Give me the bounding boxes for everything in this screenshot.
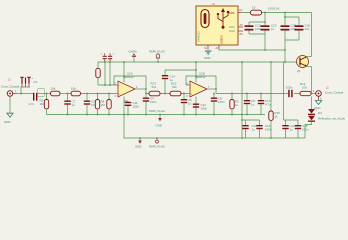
svg-text:1n: 1n xyxy=(72,103,76,107)
junction C8 xyxy=(213,93,215,95)
svg-text:100n: 100n xyxy=(265,128,272,132)
capacitor C8 xyxy=(211,94,225,115)
label +5V usb xyxy=(268,7,279,11)
svg-text:100n: 100n xyxy=(150,100,157,104)
capacitor C2 xyxy=(84,94,96,115)
svg-text:L5: L5 xyxy=(252,6,256,10)
wire vertical x271 xyxy=(270,62,272,111)
svg-text:-: - xyxy=(119,83,120,87)
junction x242 y120 xyxy=(241,119,243,121)
wire R6 to R7 xyxy=(60,93,71,95)
svg-text:VBUS: VBUS xyxy=(228,12,235,15)
capacitor C9 xyxy=(244,94,255,115)
connector J2 output coaxial xyxy=(313,86,344,97)
svg-text:4.7u: 4.7u xyxy=(29,102,35,106)
wire op1 out row xyxy=(146,93,190,95)
wire cap pair2 tops xyxy=(285,13,299,26)
capacitor C15 xyxy=(245,24,262,32)
svg-text:CC2: CC2 xyxy=(229,29,235,33)
junction vbus b xyxy=(284,12,286,14)
capacitor C18 xyxy=(295,24,311,32)
svg-text:USB2.0: USB2.0 xyxy=(220,35,224,44)
wire op1 vcc pin xyxy=(123,62,125,82)
wire bottom cap tops left pair xyxy=(242,120,260,125)
wire op1 output xyxy=(135,88,146,90)
junction C5b xyxy=(183,93,185,95)
ground J1 xyxy=(4,113,13,124)
junction C17 xyxy=(260,93,262,95)
capacitor C5 bypass xyxy=(101,53,107,63)
input filter caps C1 C2 xyxy=(20,77,37,94)
gnd bus usb row xyxy=(219,48,285,62)
junction rail x196 xyxy=(195,61,197,63)
connector J4 USB-C receptacle xyxy=(196,6,238,45)
svg-text:1u: 1u xyxy=(188,102,192,106)
pin S1 shield stub xyxy=(204,45,208,50)
wire vertical x283.5 xyxy=(283,62,285,120)
svg-text:1u: 1u xyxy=(251,103,255,107)
wire R11 to J2 xyxy=(311,93,316,95)
junction op1 out xyxy=(145,88,147,90)
svg-text:A5: A5 xyxy=(240,23,244,27)
wire cap pair2 bottoms xyxy=(285,31,299,51)
wire transistor emitter stub xyxy=(307,66,312,68)
diode D1 protection xyxy=(308,97,318,116)
junction y85 a xyxy=(104,84,106,86)
capacitor C14 xyxy=(162,75,175,94)
wire op2 output xyxy=(207,88,216,90)
svg-text:SHIELD: SHIELD xyxy=(197,32,201,42)
J2 ground pin xyxy=(314,96,322,110)
wire op2 vee pin xyxy=(195,97,197,115)
resistor R7 xyxy=(71,87,81,96)
junction pair1 xyxy=(264,21,266,23)
wire op2 feedback loop xyxy=(186,76,216,94)
svg-text:100n: 100n xyxy=(133,105,140,109)
junction R8 xyxy=(97,93,99,95)
wire op1 feedback loop xyxy=(114,76,146,94)
pin A5 CC1 stub xyxy=(238,23,243,27)
svg-text:1u: 1u xyxy=(252,128,256,132)
svg-text:1u: 1u xyxy=(290,128,294,132)
junction bus50 a xyxy=(264,49,266,51)
capacitor C4 xyxy=(143,94,157,115)
junction y85 b xyxy=(109,84,111,86)
junction output node xyxy=(311,93,313,95)
USB GND vertical text xyxy=(220,35,224,44)
svg-text:51k: 51k xyxy=(152,85,157,89)
resistor R15 xyxy=(269,111,280,138)
capacitor C7 xyxy=(64,94,75,115)
svg-text:C3: C3 xyxy=(34,80,38,84)
ground symbol mid xyxy=(156,115,162,128)
resistor R10 xyxy=(230,94,239,115)
wire VBUS main xyxy=(241,12,312,14)
svg-text:100n: 100n xyxy=(201,107,208,111)
resistor R8 xyxy=(95,94,99,115)
svg-text:GND: GND xyxy=(4,120,10,124)
power flag bottom xyxy=(149,138,166,149)
svg-text:Conn_Coaxial: Conn_Coaxial xyxy=(1,85,20,89)
wire after series cap xyxy=(38,93,51,95)
junction R10 xyxy=(231,93,233,95)
capacitor C6 bypass xyxy=(108,53,115,63)
svg-text:Q1: Q1 xyxy=(297,69,301,73)
svg-text:1u: 1u xyxy=(271,27,275,31)
wire transistor collector stub xyxy=(307,56,312,58)
capacitor C1 series xyxy=(29,89,45,106)
svg-text:1M: 1M xyxy=(101,103,106,107)
USB trident symbol xyxy=(217,8,229,29)
svg-text:S1: S1 xyxy=(204,46,208,50)
junction x196 y70 xyxy=(195,69,197,71)
capacitor C5b bias xyxy=(181,94,192,115)
wire bus low xyxy=(124,115,305,139)
wire vbus to right edge down xyxy=(311,13,313,57)
svg-text:PWR_FLAG: PWR_FLAG xyxy=(149,145,166,149)
svg-text:-: - xyxy=(191,83,192,87)
wire R7 to opamp xyxy=(81,93,119,95)
svg-text:100n: 100n xyxy=(286,86,293,90)
wire cap pair1 tops xyxy=(249,13,265,26)
junction rail x158 xyxy=(157,61,159,63)
svg-text:GND: GND xyxy=(204,56,210,60)
USB-C plug glyph xyxy=(201,10,209,28)
ground symbol bottom xyxy=(135,138,142,149)
resistor R4 feedback xyxy=(96,62,100,85)
capacitor C12 xyxy=(193,103,208,111)
J4 reference label xyxy=(212,2,215,6)
ferrite bead L5 xyxy=(251,6,262,16)
capacitor C17 xyxy=(258,94,271,115)
capacitor C19 xyxy=(281,24,298,32)
svg-text:A4: A4 xyxy=(239,8,243,12)
svg-text:Reflection_sw_Audio: Reflection_sw_Audio xyxy=(318,117,345,121)
wire bottom cap tops right pair xyxy=(284,120,299,125)
svg-text:100Ω 2A: 100Ω 2A xyxy=(268,7,279,11)
junction C11 xyxy=(127,114,129,116)
svg-text:B5: B5 xyxy=(240,32,244,36)
ground for USB shield xyxy=(204,51,211,61)
svg-text:10k: 10k xyxy=(51,87,56,91)
junction C2 xyxy=(86,93,88,95)
junction op2 out xyxy=(215,88,217,90)
junction C14 node xyxy=(164,93,166,95)
junction rail x110 xyxy=(109,61,111,63)
pin A1 gnd stub xyxy=(216,45,220,50)
USB pin names CC1 CC2 xyxy=(229,25,235,33)
junction rail right verticals xyxy=(241,61,286,63)
svg-text:Conn_Coaxial: Conn_Coaxial xyxy=(325,91,344,95)
gnd bus mid xyxy=(47,114,266,116)
resistor R9 xyxy=(101,94,112,115)
capacitor C16 xyxy=(256,124,272,138)
resistor R5 xyxy=(40,94,49,115)
junction pair2 xyxy=(284,16,286,18)
resistor R12 xyxy=(170,82,181,96)
resistor R11 output xyxy=(300,82,311,96)
capacitor C18b xyxy=(295,124,309,138)
junction rail x105 xyxy=(104,61,106,63)
capacitor C11 xyxy=(125,101,140,115)
wire input signal xyxy=(17,93,33,95)
transistor Q1 xyxy=(297,56,309,74)
svg-text:PWR_FLAG: PWR_FLAG xyxy=(149,109,166,113)
wire cap pair1 bottoms xyxy=(249,31,265,51)
capacitor C20 output series xyxy=(286,86,293,98)
junction C7 xyxy=(67,93,69,95)
pin A4 VBUS stub xyxy=(238,8,243,12)
wire op2 output row xyxy=(216,93,300,95)
power flag PWR_FLAG on rail xyxy=(149,50,166,63)
svg-text:10k: 10k xyxy=(71,87,76,91)
junction C9 xyxy=(246,93,248,95)
junction rail x124 xyxy=(123,61,125,63)
USB SHIELD vertical text xyxy=(197,32,201,42)
connector J1 input coaxial xyxy=(1,78,20,97)
svg-text:10u: 10u xyxy=(305,27,310,31)
USB pin name VBUS xyxy=(228,12,235,15)
svg-text:GNDA: GNDA xyxy=(129,50,137,54)
svg-text:GND: GND xyxy=(135,145,141,149)
diode D2 protection xyxy=(308,111,345,122)
wire op1 bias verticals xyxy=(105,62,110,85)
op-amp U1A xyxy=(115,72,139,99)
wire diode bottom to bus xyxy=(305,122,312,138)
capacitor C12b xyxy=(282,124,295,138)
svg-text:PWR_FLAG: PWR_FLAG xyxy=(149,50,166,54)
capacitor C10 xyxy=(242,124,257,138)
rail wire y62 xyxy=(98,61,300,63)
resistor R13 xyxy=(149,82,160,96)
op-amp U1B xyxy=(187,72,211,99)
wire op1 vee and C11 xyxy=(124,97,128,115)
svg-text:100u: 100u xyxy=(302,128,309,132)
junction bus50 b xyxy=(284,49,286,51)
svg-text:1M: 1M xyxy=(40,102,45,106)
svg-text:100n: 100n xyxy=(218,100,225,104)
svg-text:10k: 10k xyxy=(302,86,307,90)
power symbol GNDA xyxy=(129,50,137,63)
wire vertical x242 xyxy=(241,62,243,138)
junction bus mid dots xyxy=(67,114,248,116)
svg-text:51k: 51k xyxy=(172,85,177,89)
junction vbus a xyxy=(264,12,266,14)
wire segment transistor to output xyxy=(311,67,313,94)
pin B5 CC2 stub xyxy=(238,31,243,36)
svg-text:4.7u: 4.7u xyxy=(265,103,271,107)
capacitor C13 xyxy=(261,24,277,32)
wire op1 minus input xyxy=(98,84,118,86)
wire op2 vcc pin and c14 feed xyxy=(165,62,196,82)
svg-text:GND: GND xyxy=(156,124,162,128)
junction R9 xyxy=(108,93,110,95)
wire J1 shield down xyxy=(9,96,11,113)
resistor R6 xyxy=(51,87,61,96)
junction R5 top xyxy=(46,93,48,95)
junction input xyxy=(20,93,22,95)
junction bus low xyxy=(139,137,272,139)
junction C4 xyxy=(145,93,147,95)
label PWR_FLAG mid xyxy=(149,109,166,113)
svg-text:D3: D3 xyxy=(318,111,322,115)
